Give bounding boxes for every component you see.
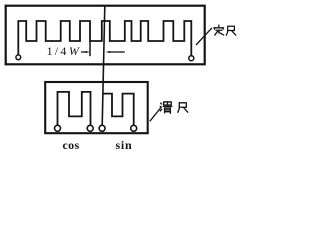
svg-text:cos: cos bbox=[63, 138, 80, 152]
svg-text:1/4W: 1/4W bbox=[47, 44, 81, 58]
svg-text:sin: sin bbox=[115, 138, 132, 152]
